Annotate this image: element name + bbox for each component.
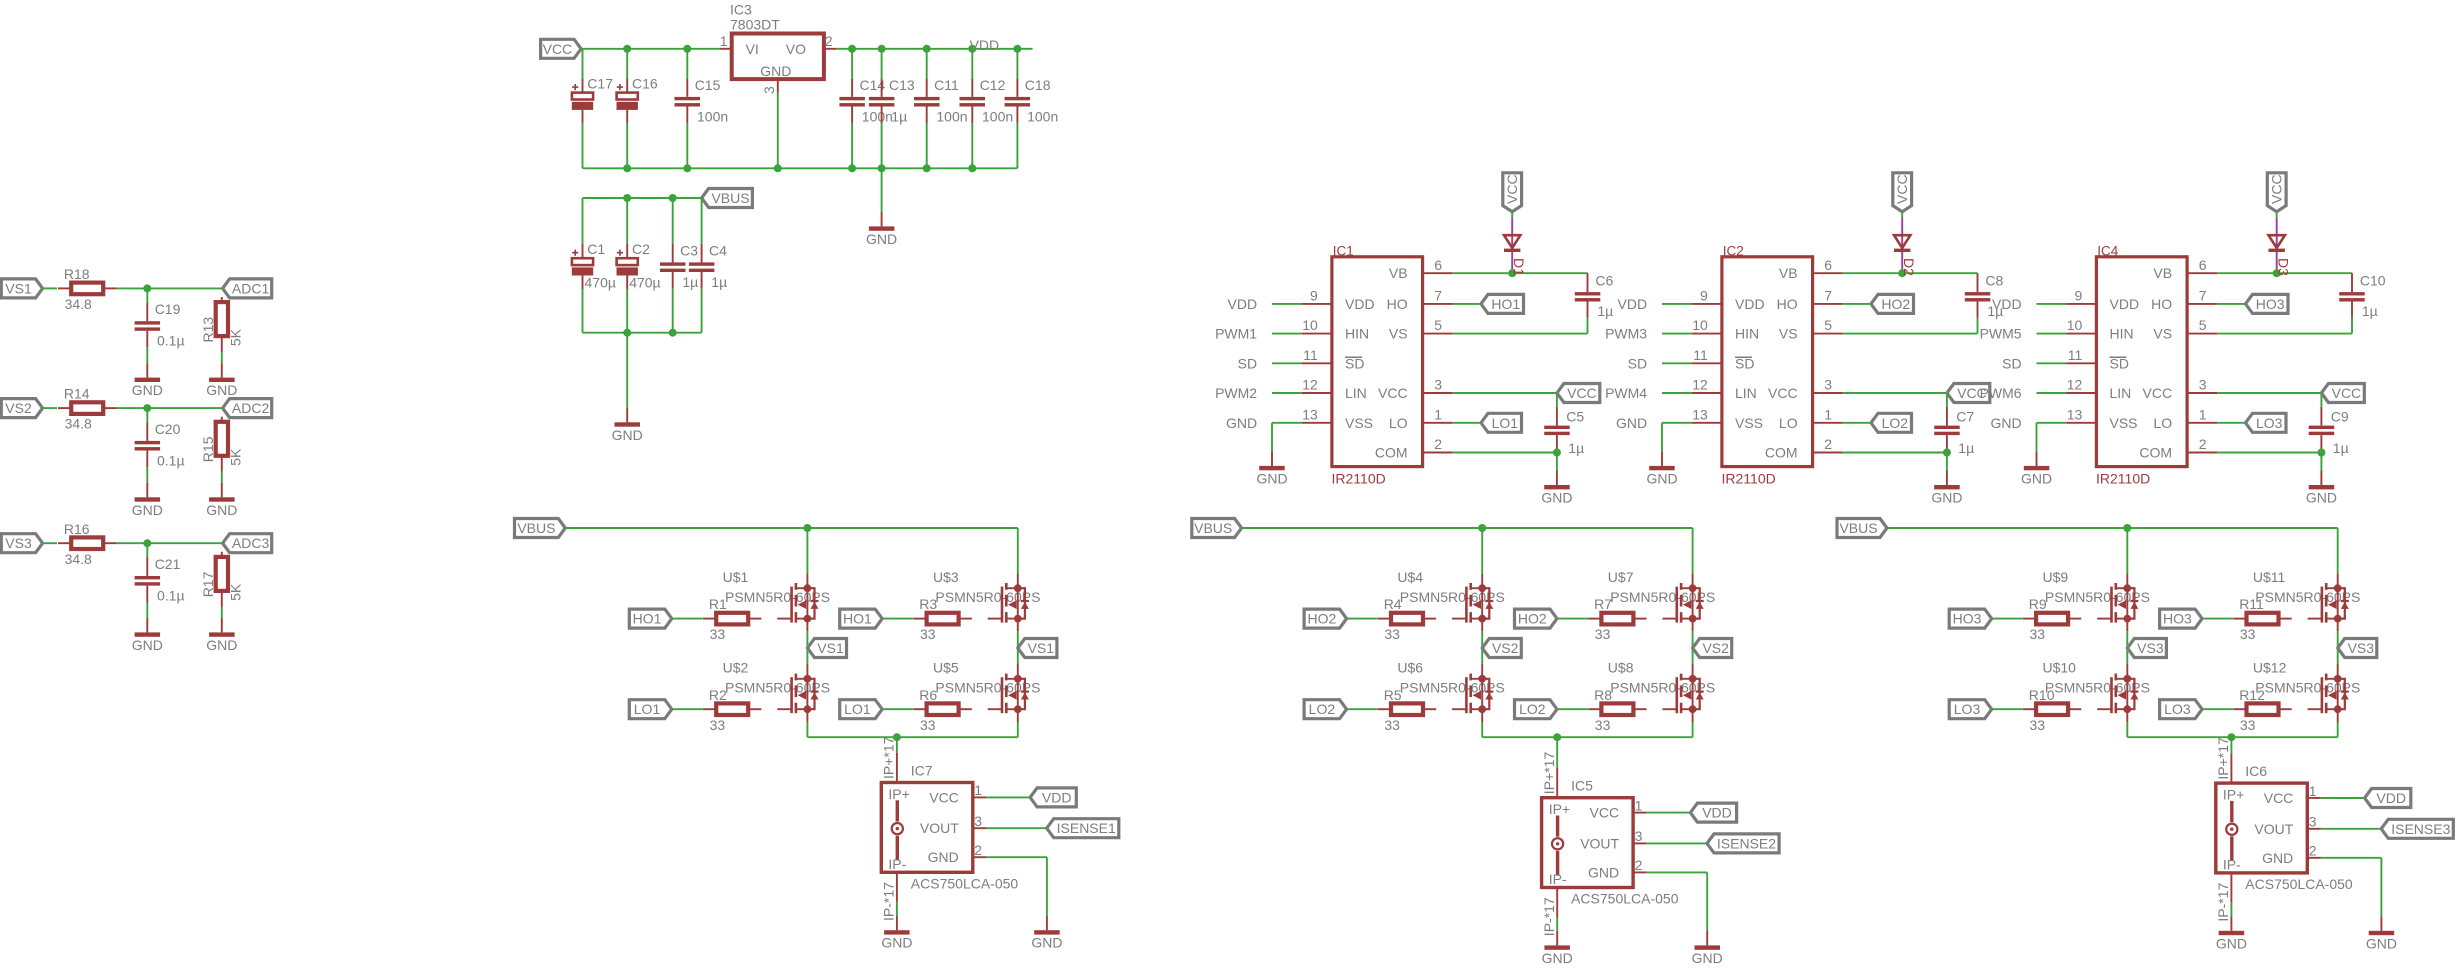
svg-text:HO3: HO3 [2163, 611, 2192, 627]
svg-text:LO2: LO2 [1882, 415, 1909, 431]
svg-text:2: 2 [2199, 436, 2207, 452]
svg-text:C12: C12 [980, 77, 1006, 93]
svg-text:34.8: 34.8 [65, 416, 92, 432]
svg-text:GND: GND [2262, 850, 2293, 866]
svg-text:6: 6 [1824, 257, 1832, 273]
svg-text:PWM6: PWM6 [1980, 385, 2022, 401]
svg-text:VCC: VCC [2264, 790, 2294, 806]
svg-text:VOUT: VOUT [1580, 835, 1619, 851]
svg-text:IP-: IP- [1549, 871, 1567, 887]
svg-text:ADC1: ADC1 [232, 280, 270, 296]
svg-text:LO3: LO3 [2164, 701, 2191, 717]
svg-text:ADC3: ADC3 [232, 535, 270, 551]
svg-text:VCC: VCC [1567, 385, 1597, 401]
svg-text:HO: HO [2151, 296, 2172, 312]
svg-text:LO: LO [1779, 415, 1798, 431]
svg-text:IC2: IC2 [1723, 243, 1744, 258]
svg-text:VCC: VCC [2143, 385, 2173, 401]
svg-text:10: 10 [1302, 317, 1318, 333]
svg-text:HO3: HO3 [2256, 296, 2285, 312]
svg-text:VOUT: VOUT [920, 820, 959, 836]
svg-text:11: 11 [1693, 347, 1708, 363]
svg-text:R15: R15 [200, 436, 216, 462]
svg-text:U$4: U$4 [1397, 569, 1423, 585]
svg-text:HO1: HO1 [1491, 296, 1520, 312]
svg-text:SD: SD [2002, 355, 2021, 371]
svg-text:VB: VB [2153, 265, 2172, 281]
svg-text:GND: GND [2306, 490, 2337, 506]
svg-text:0.1µ: 0.1µ [157, 333, 185, 349]
svg-text:VI: VI [746, 41, 759, 57]
svg-text:VS2: VS2 [1702, 640, 1729, 656]
svg-text:2: 2 [1824, 436, 1832, 452]
svg-text:ACS750LCA-050: ACS750LCA-050 [911, 875, 1019, 891]
svg-text:3: 3 [761, 86, 777, 94]
svg-text:R2: R2 [709, 687, 727, 703]
svg-text:1: 1 [720, 33, 728, 49]
svg-text:C10: C10 [2360, 272, 2386, 288]
svg-text:VDD: VDD [970, 37, 1000, 53]
svg-text:1µ: 1µ [2362, 303, 2378, 319]
svg-text:VCC: VCC [1894, 174, 1910, 204]
svg-text:SD: SD [1628, 355, 1647, 371]
svg-text:VS3: VS3 [5, 535, 32, 551]
svg-text:R5: R5 [1384, 687, 1402, 703]
svg-text:470µ: 470µ [629, 275, 660, 291]
svg-text:VSS: VSS [1735, 415, 1763, 431]
svg-text:C1: C1 [587, 241, 605, 257]
svg-text:7: 7 [1824, 288, 1832, 304]
svg-text:11: 11 [2068, 347, 2083, 363]
svg-text:U$10: U$10 [2043, 659, 2077, 675]
svg-text:HO3: HO3 [1953, 611, 1982, 627]
svg-text:GND: GND [132, 502, 163, 518]
svg-text:5: 5 [2199, 317, 2207, 333]
svg-text:VS2: VS2 [5, 400, 32, 416]
svg-text:VCC: VCC [543, 41, 573, 57]
svg-text:5K: 5K [227, 448, 243, 466]
svg-text:R9: R9 [2029, 596, 2047, 612]
svg-text:LIN: LIN [2110, 385, 2132, 401]
svg-text:GND: GND [612, 427, 643, 443]
svg-text:GND: GND [2021, 470, 2052, 486]
svg-text:GND: GND [132, 637, 163, 653]
svg-text:VBUS: VBUS [711, 190, 749, 206]
svg-text:33: 33 [710, 626, 726, 642]
svg-text:GND: GND [1931, 490, 1962, 506]
svg-text:VDD: VDD [2376, 790, 2406, 806]
svg-text:ADC2: ADC2 [232, 400, 270, 416]
svg-text:IP-: IP- [888, 856, 906, 872]
svg-text:5: 5 [1434, 317, 1442, 333]
svg-text:3: 3 [1824, 377, 1832, 393]
svg-text:1µ: 1µ [682, 274, 698, 290]
svg-text:C6: C6 [1595, 272, 1613, 288]
svg-text:GND: GND [928, 849, 959, 865]
svg-text:C19: C19 [155, 301, 181, 317]
svg-text:IP+*17: IP+*17 [881, 736, 897, 779]
svg-text:VDD: VDD [1992, 296, 2022, 312]
svg-text:34.8: 34.8 [65, 551, 92, 567]
svg-text:2: 2 [974, 842, 982, 858]
svg-text:33: 33 [1384, 626, 1400, 642]
svg-text:LIN: LIN [1345, 385, 1367, 401]
svg-text:HO2: HO2 [1881, 296, 1910, 312]
svg-text:3: 3 [2309, 814, 2317, 830]
svg-text:470µ: 470µ [585, 275, 616, 291]
svg-text:U$1: U$1 [723, 569, 749, 585]
svg-text:LO2: LO2 [1519, 701, 1546, 717]
svg-text:U$7: U$7 [1608, 569, 1634, 585]
svg-text:ISENSE2: ISENSE2 [1717, 835, 1776, 851]
svg-text:VBUS: VBUS [1839, 520, 1877, 536]
svg-text:IR2110D: IR2110D [2096, 470, 2150, 486]
svg-text:2: 2 [1635, 857, 1643, 873]
svg-text:VDD: VDD [1228, 296, 1258, 312]
svg-text:VDD: VDD [1735, 296, 1765, 312]
svg-text:IC4: IC4 [2097, 243, 2119, 258]
svg-text:VO: VO [786, 41, 806, 57]
svg-text:IP+*17: IP+*17 [2215, 737, 2231, 780]
svg-text:C9: C9 [2331, 408, 2349, 424]
svg-text:LO1: LO1 [1492, 415, 1519, 431]
svg-text:HO2: HO2 [1518, 611, 1547, 627]
svg-text:GND: GND [132, 382, 163, 398]
svg-text:9: 9 [1310, 288, 1318, 304]
svg-text:VS2: VS2 [1492, 640, 1519, 656]
svg-text:1: 1 [1824, 406, 1832, 422]
svg-text:R14: R14 [64, 386, 90, 402]
svg-text:VCC: VCC [929, 789, 959, 805]
svg-text:1: 1 [2309, 783, 2317, 799]
svg-text:U$2: U$2 [723, 659, 749, 675]
svg-text:HIN: HIN [1735, 326, 1759, 342]
svg-text:VBUS: VBUS [517, 520, 555, 536]
svg-text:1: 1 [2199, 406, 2207, 422]
svg-text:6: 6 [2199, 257, 2207, 273]
svg-text:VCC: VCC [2269, 174, 2285, 204]
svg-text:33: 33 [2240, 626, 2256, 642]
svg-text:LO2: LO2 [1309, 701, 1336, 717]
svg-text:GND: GND [206, 382, 237, 398]
svg-text:GND: GND [1616, 415, 1647, 431]
svg-text:COM: COM [2139, 445, 2172, 461]
svg-text:C21: C21 [155, 556, 181, 572]
svg-text:34.8: 34.8 [65, 296, 92, 312]
svg-text:VCC: VCC [1504, 174, 1520, 204]
svg-text:2: 2 [1434, 436, 1442, 452]
svg-text:VDD: VDD [1042, 789, 1072, 805]
svg-text:LIN: LIN [1735, 385, 1757, 401]
svg-text:IR2110D: IR2110D [1722, 470, 1776, 486]
svg-text:D2: D2 [1901, 258, 1917, 276]
svg-text:9: 9 [2075, 288, 2083, 304]
svg-text:GND: GND [1542, 950, 1573, 966]
svg-text:2: 2 [825, 33, 833, 49]
svg-text:GND: GND [206, 502, 237, 518]
svg-text:1: 1 [974, 782, 982, 798]
svg-text:PWM4: PWM4 [1605, 385, 1647, 401]
svg-text:IC5: IC5 [1571, 778, 1593, 794]
svg-text:13: 13 [2067, 406, 2083, 422]
svg-text:100n: 100n [1027, 108, 1058, 124]
svg-text:C8: C8 [1985, 272, 2003, 288]
svg-text:VCC: VCC [1590, 805, 1620, 821]
svg-text:33: 33 [1595, 717, 1611, 733]
svg-text:VS: VS [2153, 326, 2172, 342]
svg-text:9: 9 [1700, 288, 1708, 304]
svg-text:U$3: U$3 [933, 569, 959, 585]
svg-text:1: 1 [1434, 406, 1442, 422]
svg-text:IC7: IC7 [911, 762, 933, 778]
svg-text:VS1: VS1 [1028, 640, 1055, 656]
svg-text:HO: HO [1777, 296, 1798, 312]
svg-text:13: 13 [1302, 406, 1318, 422]
svg-text:33: 33 [710, 717, 726, 733]
svg-text:R16: R16 [64, 521, 90, 537]
svg-text:1µ: 1µ [1568, 440, 1584, 456]
svg-text:VOUT: VOUT [2254, 821, 2293, 837]
svg-text:3: 3 [974, 813, 982, 829]
svg-text:VSS: VSS [2110, 415, 2138, 431]
svg-text:VDD: VDD [1702, 805, 1732, 821]
svg-text:VS1: VS1 [817, 640, 844, 656]
svg-text:11: 11 [1303, 347, 1318, 363]
svg-text:0.1µ: 0.1µ [157, 452, 185, 468]
svg-text:COM: COM [1375, 445, 1408, 461]
svg-text:GND: GND [881, 935, 912, 951]
svg-text:ACS750LCA-050: ACS750LCA-050 [1571, 891, 1679, 907]
svg-text:SD: SD [1238, 355, 1257, 371]
svg-text:LO3: LO3 [1954, 701, 1981, 717]
svg-text:IP+: IP+ [888, 786, 909, 802]
svg-text:33: 33 [1595, 626, 1611, 642]
svg-text:PWM2: PWM2 [1215, 385, 1257, 401]
svg-text:33: 33 [920, 717, 936, 733]
svg-text:100n: 100n [982, 108, 1013, 124]
svg-text:IP-*17: IP-*17 [1541, 897, 1557, 936]
svg-text:10: 10 [2067, 317, 2083, 333]
svg-text:VBUS: VBUS [1194, 520, 1232, 536]
svg-text:R12: R12 [2239, 687, 2265, 703]
svg-text:3: 3 [1434, 377, 1442, 393]
svg-text:3: 3 [1635, 828, 1643, 844]
svg-text:C15: C15 [695, 77, 721, 93]
svg-text:GND: GND [1256, 470, 1287, 486]
svg-text:R6: R6 [919, 687, 937, 703]
svg-text:IP+: IP+ [2223, 787, 2244, 803]
svg-text:R17: R17 [200, 571, 216, 597]
svg-text:VB: VB [1779, 265, 1798, 281]
svg-text:IP-*17: IP-*17 [881, 882, 897, 921]
svg-text:VCC: VCC [1768, 385, 1798, 401]
svg-text:1µ: 1µ [1958, 440, 1974, 456]
svg-text:GND: GND [1541, 490, 1572, 506]
svg-text:GND: GND [760, 63, 791, 79]
svg-text:IP-: IP- [2223, 856, 2241, 872]
svg-text:IC3: IC3 [730, 2, 752, 18]
svg-text:GND: GND [206, 637, 237, 653]
svg-text:C13: C13 [889, 77, 915, 93]
svg-text:33: 33 [2030, 717, 2046, 733]
svg-text:3: 3 [2199, 377, 2207, 393]
svg-text:GND: GND [866, 231, 897, 247]
svg-text:0.1µ: 0.1µ [157, 587, 185, 603]
svg-text:PWM3: PWM3 [1605, 326, 1647, 342]
svg-text:COM: COM [1765, 445, 1798, 461]
svg-text:R8: R8 [1594, 687, 1612, 703]
svg-text:LO1: LO1 [844, 701, 871, 717]
svg-text:U$6: U$6 [1397, 659, 1423, 675]
svg-text:IC6: IC6 [2245, 763, 2267, 779]
svg-text:D1: D1 [1511, 258, 1527, 276]
svg-text:33: 33 [2240, 717, 2256, 733]
svg-text:HO: HO [1387, 296, 1408, 312]
svg-text:ISENSE1: ISENSE1 [1057, 820, 1116, 836]
svg-text:IC1: IC1 [1333, 243, 1354, 258]
svg-text:ISENSE3: ISENSE3 [2391, 821, 2450, 837]
svg-text:PWM5: PWM5 [1980, 326, 2022, 342]
svg-text:GND: GND [2366, 935, 2397, 951]
svg-text:C2: C2 [632, 241, 650, 257]
svg-text:VS1: VS1 [5, 280, 32, 296]
svg-text:GND: GND [1990, 415, 2021, 431]
svg-text:U$5: U$5 [933, 659, 959, 675]
svg-text:C4: C4 [709, 242, 727, 258]
svg-text:GND: GND [1588, 864, 1619, 880]
svg-text:12: 12 [1302, 377, 1318, 393]
svg-text:GND: GND [1646, 470, 1677, 486]
svg-text:IR2110D: IR2110D [1332, 470, 1386, 486]
svg-text:VDD: VDD [1618, 296, 1648, 312]
svg-text:HO1: HO1 [633, 611, 662, 627]
svg-text:VS: VS [1779, 326, 1798, 342]
svg-text:C11: C11 [934, 77, 959, 93]
svg-text:5K: 5K [227, 583, 243, 601]
svg-text:VDD: VDD [2110, 296, 2140, 312]
svg-text:6: 6 [1434, 257, 1442, 273]
svg-text:C16: C16 [632, 75, 658, 91]
svg-text:U$11: U$11 [2253, 569, 2286, 585]
svg-text:33: 33 [2030, 626, 2046, 642]
svg-text:12: 12 [1692, 377, 1708, 393]
svg-text:13: 13 [1692, 406, 1708, 422]
svg-text:LO1: LO1 [634, 701, 661, 717]
svg-text:GND: GND [1226, 415, 1257, 431]
svg-text:1: 1 [1635, 797, 1643, 813]
svg-text:VS: VS [1389, 326, 1408, 342]
svg-text:GND: GND [1031, 935, 1062, 951]
svg-text:IP-*17: IP-*17 [2215, 882, 2231, 921]
svg-text:R3: R3 [919, 596, 937, 612]
svg-text:VCC: VCC [2332, 385, 2362, 401]
svg-text:7803DT: 7803DT [730, 16, 780, 32]
svg-text:VSS: VSS [1345, 415, 1373, 431]
svg-text:C3: C3 [680, 242, 698, 258]
svg-text:R10: R10 [2029, 687, 2055, 703]
svg-text:10: 10 [1692, 317, 1708, 333]
svg-text:HO2: HO2 [1308, 611, 1337, 627]
svg-text:IP+*17: IP+*17 [1541, 752, 1557, 795]
svg-text:C20: C20 [155, 421, 181, 437]
svg-text:7: 7 [2199, 288, 2207, 304]
svg-text:R11: R11 [2239, 596, 2264, 612]
svg-text:100n: 100n [862, 108, 893, 124]
svg-text:GND: GND [2216, 935, 2247, 951]
svg-text:2: 2 [2309, 843, 2317, 859]
svg-text:7: 7 [1434, 288, 1442, 304]
svg-text:VCC: VCC [1378, 385, 1408, 401]
svg-text:VS3: VS3 [2137, 640, 2164, 656]
svg-text:IP+: IP+ [1549, 801, 1570, 817]
svg-text:100n: 100n [936, 108, 967, 124]
svg-text:1µ: 1µ [891, 108, 907, 124]
svg-text:VDD: VDD [1345, 296, 1375, 312]
svg-text:LO: LO [1389, 415, 1408, 431]
svg-text:1µ: 1µ [1597, 303, 1613, 319]
svg-text:100n: 100n [697, 108, 728, 124]
svg-text:5: 5 [1824, 317, 1832, 333]
svg-text:PWM1: PWM1 [1215, 326, 1257, 342]
svg-text:33: 33 [920, 626, 936, 642]
svg-text:1µ: 1µ [711, 274, 727, 290]
svg-text:R18: R18 [64, 266, 90, 282]
svg-text:ACS750LCA-050: ACS750LCA-050 [2245, 876, 2353, 892]
svg-text:1µ: 1µ [2333, 440, 2349, 456]
svg-text:U$8: U$8 [1608, 659, 1634, 675]
svg-text:HIN: HIN [2110, 326, 2134, 342]
svg-text:5K: 5K [227, 328, 243, 346]
svg-text:12: 12 [2067, 377, 2083, 393]
svg-text:LO3: LO3 [2256, 415, 2283, 431]
svg-text:R7: R7 [1594, 596, 1612, 612]
svg-text:R1: R1 [709, 596, 727, 612]
svg-text:R4: R4 [1384, 596, 1402, 612]
svg-text:HO1: HO1 [843, 611, 872, 627]
svg-text:HIN: HIN [1345, 326, 1369, 342]
svg-text:33: 33 [1384, 717, 1400, 733]
svg-text:D3: D3 [2275, 258, 2291, 276]
svg-text:VB: VB [1389, 265, 1408, 281]
svg-text:C17: C17 [587, 75, 613, 91]
svg-text:C18: C18 [1025, 77, 1051, 93]
svg-text:C7: C7 [1956, 408, 1974, 424]
svg-text:U$9: U$9 [2043, 569, 2069, 585]
svg-text:LO: LO [2153, 415, 2172, 431]
svg-text:VS3: VS3 [2348, 640, 2375, 656]
svg-text:R13: R13 [200, 317, 216, 343]
svg-text:C5: C5 [1566, 408, 1584, 424]
svg-text:GND: GND [1692, 950, 1723, 966]
svg-text:U$12: U$12 [2253, 659, 2287, 675]
